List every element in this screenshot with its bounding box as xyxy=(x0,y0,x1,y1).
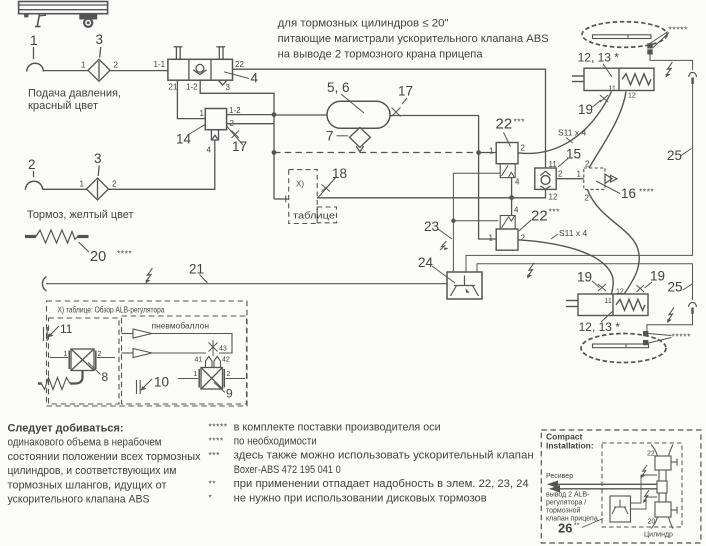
svg-text:*: * xyxy=(209,493,213,503)
tyre upper xyxy=(582,22,667,48)
lightning on 23 xyxy=(440,241,446,250)
drain valve 7 xyxy=(349,127,370,152)
svg-text:20: 20 xyxy=(90,249,106,265)
svg-text:11: 11 xyxy=(605,298,612,305)
hose S11x4 lower xyxy=(518,240,613,294)
svg-text:в комплекте поставки производи: в комплекте поставки производителя оси xyxy=(234,421,441,433)
svg-text:22: 22 xyxy=(235,60,244,69)
sensor connector lower xyxy=(643,331,648,336)
wires 26 to stack xyxy=(631,475,658,509)
svg-text:Ресивер: Ресивер xyxy=(546,473,573,480)
svg-text:12, 13 *: 12, 13 * xyxy=(578,51,620,65)
Compact Installation box xyxy=(541,430,701,543)
test point 19 lower-left xyxy=(592,281,606,291)
svg-text:19: 19 xyxy=(650,269,665,284)
svg-text:2: 2 xyxy=(521,234,526,243)
svg-text:не нужно при использовании дис: не нужно при использовании дисковых торм… xyxy=(234,492,487,504)
svg-text:2: 2 xyxy=(114,61,119,70)
svg-text:12: 12 xyxy=(616,289,624,296)
svg-text:3: 3 xyxy=(94,151,102,166)
label 4 pointer xyxy=(224,72,249,79)
svg-text:тормозной: тормозной xyxy=(546,507,581,515)
node dot xyxy=(509,195,514,200)
wire node down to table line xyxy=(274,198,289,200)
svg-text:*****: ***** xyxy=(672,332,692,342)
label 25 lower pointer xyxy=(683,284,692,290)
svg-text:2: 2 xyxy=(558,170,563,179)
svg-text:питающие магистрали ускоритель: питающие магистрали ускорительного клапа… xyxy=(278,33,549,45)
spring & pipe of 8 xyxy=(38,371,83,390)
ALB regulator 9 xyxy=(178,368,245,390)
svg-text:**: ** xyxy=(209,478,217,488)
svg-text:22: 22 xyxy=(496,116,513,133)
svg-text:ускорительного клапана ABS: ускорительного клапана ABS xyxy=(8,494,150,506)
svg-text:9: 9 xyxy=(226,387,233,401)
control line 21 xyxy=(42,277,46,292)
svg-text:21: 21 xyxy=(169,83,178,92)
svg-text:здесь также можно использовать: здесь также можно использовать ускорител… xyxy=(234,450,534,462)
svg-text:2: 2 xyxy=(227,371,231,378)
svg-text:1: 1 xyxy=(64,351,68,358)
svg-text:Installation:: Installation: xyxy=(546,441,594,451)
coupling 1 (supply) xyxy=(27,47,44,72)
inner dashed box xyxy=(602,443,682,527)
lightning bolts in compact box xyxy=(642,465,647,476)
wire 14 port2 down xyxy=(227,123,274,125)
svg-text:таблице: таблице xyxy=(293,211,335,221)
sensor cable lower xyxy=(477,264,696,331)
label 12,13 * pointer xyxy=(603,64,612,77)
svg-text:3: 3 xyxy=(226,83,231,92)
check symbol in middle section xyxy=(196,64,204,72)
svg-text:11: 11 xyxy=(60,322,73,336)
svg-text:17: 17 xyxy=(232,139,247,154)
brake cylinder 12,13 lower xyxy=(566,294,648,316)
dashed wire node to upper valve22 port1 xyxy=(274,152,479,154)
svg-text:8: 8 xyxy=(102,370,109,384)
svg-text:1: 1 xyxy=(80,180,85,189)
test point 19 lower-right xyxy=(637,282,653,292)
wire 15 port2 to valve16 xyxy=(556,178,584,180)
svg-text:1: 1 xyxy=(200,109,205,118)
svg-text:10: 10 xyxy=(154,375,169,390)
svg-text:12, 13 *: 12, 13 * xyxy=(579,320,621,334)
svg-text:S11 x 4: S11 x 4 xyxy=(558,128,586,138)
svg-text:1-2: 1-2 xyxy=(186,83,198,92)
svg-text:41: 41 xyxy=(195,357,203,364)
label 12,13 * lower pointer xyxy=(601,311,613,322)
wire coupling1 to filter3 xyxy=(43,70,88,72)
svg-text:42: 42 xyxy=(222,357,230,364)
svg-text:состоянии положении всех тормо: состоянии положении всех тормозных xyxy=(8,451,202,463)
label 22 *** xyxy=(504,133,511,147)
svg-text:пневмобаллон: пневмобаллон xyxy=(152,321,210,331)
lightning upper right xyxy=(667,62,673,75)
svg-text:25: 25 xyxy=(668,280,683,295)
wire valve4 port22 to shuttle 15 xyxy=(233,69,546,168)
svg-text:2: 2 xyxy=(112,180,117,189)
label 16 pointer xyxy=(596,181,620,194)
svg-text:тормозных шлангов, идущих от: тормозных шлангов, идущих от xyxy=(8,479,167,491)
test point 17 at valve 14 xyxy=(227,127,243,146)
wire reservoir right to lower valve22 port1 xyxy=(390,116,496,240)
svg-text:***: *** xyxy=(514,117,526,127)
brake cylinder 12,13 upper xyxy=(572,68,654,90)
svg-text:****: **** xyxy=(639,187,654,197)
wire 14 port 1-2 to node xyxy=(227,114,274,116)
svg-text:1: 1 xyxy=(489,147,494,156)
svg-text:4: 4 xyxy=(251,71,259,86)
svg-text:24: 24 xyxy=(418,255,434,270)
relay unit 26 xyxy=(610,496,631,522)
tyre lower xyxy=(581,334,666,363)
ABS solenoid valve 22 upper xyxy=(496,143,518,178)
svg-text:регулятора /: регулятора / xyxy=(546,500,586,507)
svg-text:7: 7 xyxy=(326,129,334,144)
shuttle valve 15 xyxy=(535,168,556,189)
svg-text:X) таблице: Обзор ALB-регулято: X) таблице: Обзор ALB-регулятора xyxy=(58,306,165,315)
throttle 18 xyxy=(317,177,336,199)
quick release valve 16 (dashed, optional) xyxy=(584,168,617,189)
test connection 11 xyxy=(44,326,60,341)
label 25 pointer xyxy=(681,149,692,156)
svg-text:****: **** xyxy=(209,436,224,446)
axle bar lower xyxy=(593,344,649,348)
svg-text:1: 1 xyxy=(577,170,582,179)
label 14 pointer xyxy=(189,125,206,135)
svg-text:11: 11 xyxy=(609,86,616,93)
svg-text:14: 14 xyxy=(176,132,192,147)
lightning on line 21 xyxy=(147,268,153,281)
hose S11x4 upper xyxy=(518,92,612,154)
trailer control valve 4 xyxy=(168,47,233,85)
svg-text:15: 15 xyxy=(566,147,581,162)
hose symbol 20 xyxy=(25,230,89,243)
svg-text:****: **** xyxy=(117,249,132,259)
label 5,6 pointer xyxy=(341,94,364,113)
svg-text:12: 12 xyxy=(628,93,636,100)
label 23 pointer xyxy=(438,229,452,239)
bellows input arrows xyxy=(122,329,233,358)
ports 41 42 of 9 xyxy=(206,357,221,368)
wire filter to valve14 port4 xyxy=(109,140,215,189)
wire table to shuttle15 port12 xyxy=(317,189,545,197)
svg-text:23: 23 xyxy=(424,219,439,234)
svg-text:4: 4 xyxy=(514,206,519,215)
svg-text:2: 2 xyxy=(521,144,526,153)
wire port4 down xyxy=(511,178,513,216)
test connection 10 xyxy=(137,379,153,394)
svg-text:по необходимости: по необходимости xyxy=(234,436,317,448)
svg-text:19: 19 xyxy=(578,102,593,117)
wire node vertical xyxy=(273,115,275,199)
svg-text:Цилиндр: Цилиндр xyxy=(644,532,673,539)
label 9 pointer xyxy=(214,383,225,393)
svg-text:26: 26 xyxy=(558,521,572,536)
svg-text:11: 11 xyxy=(549,160,558,169)
coupling 2 (brake) xyxy=(25,171,42,190)
wire node to reservoir xyxy=(274,114,327,116)
svg-text:1: 1 xyxy=(194,371,198,378)
ALB regulator 8 xyxy=(50,349,115,371)
svg-text:16: 16 xyxy=(621,186,636,201)
filter 3 (brake line) xyxy=(87,166,109,201)
svg-text:12: 12 xyxy=(549,193,558,202)
wire coupling2 to filter3 xyxy=(43,188,87,190)
bellows lines xyxy=(152,334,232,354)
svg-text:для тормозных цилиндров ≤ 20": для тормозных цилиндров ≤ 20" xyxy=(278,18,449,30)
svg-text:на выводе 2 тормозного крана п: на выводе 2 тормозного крана прицепа xyxy=(278,49,484,61)
svg-text:25: 25 xyxy=(667,148,682,163)
svg-text:1-2: 1-2 xyxy=(229,106,241,115)
svg-text:2: 2 xyxy=(98,351,102,358)
svg-text:одинакового объема в нерабочем: одинакового объема в нерабочем xyxy=(8,437,162,449)
label 24 pointer xyxy=(432,266,455,283)
label 8 pointer xyxy=(88,363,101,375)
svg-text:18: 18 xyxy=(332,166,347,181)
svg-text:Тормоз, желтый цвет: Тормоз, желтый цвет xyxy=(27,209,134,221)
filter 3 (supply line) xyxy=(88,47,110,81)
svg-text:5, 6: 5, 6 xyxy=(327,80,350,95)
svg-text:красный цвет: красный цвет xyxy=(28,100,98,112)
svg-text:20: 20 xyxy=(648,519,656,526)
svg-text:19: 19 xyxy=(577,270,592,285)
node dot xyxy=(272,112,277,117)
svg-text:43: 43 xyxy=(219,346,227,353)
svg-text:3: 3 xyxy=(96,32,104,47)
ABS solenoid valve 22 lower xyxy=(496,216,518,251)
hose 16 bottom to lower cylinder port 12 xyxy=(588,190,640,294)
ALB overview dashed box xyxy=(47,301,248,406)
reservoir 5,6 xyxy=(327,101,390,128)
svg-text:***: *** xyxy=(209,450,221,460)
X-table reference box xyxy=(289,170,337,224)
svg-text:X): X) xyxy=(296,180,304,189)
test point 19 upper xyxy=(593,95,609,107)
svg-text:S11 x 4: S11 x 4 xyxy=(559,228,587,238)
stems xyxy=(174,46,183,48)
svg-text:17: 17 xyxy=(398,84,413,99)
svg-text:Подача давления,: Подача давления, xyxy=(28,88,121,100)
sensor connector xyxy=(647,43,652,48)
svg-text:*****: ***** xyxy=(209,422,228,432)
compact valve stack xyxy=(651,445,677,529)
label 22 *** lower xyxy=(519,220,531,231)
wire valve4 port21 to valve14 xyxy=(177,80,205,118)
svg-text:1-1: 1-1 xyxy=(154,60,166,69)
lightning mid xyxy=(528,263,534,276)
receiver arrow lines xyxy=(547,481,657,493)
svg-text:2: 2 xyxy=(585,194,590,203)
svg-text:вывод 2 ALB-: вывод 2 ALB- xyxy=(546,492,590,499)
svg-text:21: 21 xyxy=(189,262,204,277)
node dot dashed junction xyxy=(476,150,481,155)
sensor cable upper xyxy=(466,55,697,273)
node dot xyxy=(272,150,277,155)
svg-text:1: 1 xyxy=(30,33,38,48)
svg-text:4: 4 xyxy=(207,146,212,155)
svg-text:**: ** xyxy=(574,523,580,530)
label 15 pointer xyxy=(558,159,568,168)
release valve 14 xyxy=(205,109,226,141)
vent 3 xyxy=(219,81,227,86)
svg-text:Boxer-ABS 472 195 041 0: Boxer-ABS 472 195 041 0 xyxy=(234,464,341,476)
test point 17 at reservoir xyxy=(392,98,408,117)
wire valve4 port 1-2 down to node xyxy=(200,80,274,114)
hose 16 top to upper cylinder port 12 xyxy=(589,92,626,169)
lightning lower right xyxy=(668,308,674,321)
throttle 43 xyxy=(209,340,218,356)
svg-text:*****: ***** xyxy=(669,25,689,35)
svg-text:1: 1 xyxy=(489,234,494,243)
axle bar xyxy=(593,35,652,39)
svg-text:1: 1 xyxy=(81,61,86,70)
svg-text:при применении отпадает надобн: при применении отпадает надобность в эле… xyxy=(234,478,529,490)
ECU 24 xyxy=(447,272,482,299)
wire filter3 to valve4 port 1-1 xyxy=(110,70,168,72)
svg-text:22: 22 xyxy=(531,207,548,224)
svg-text:Следует добиваться:: Следует добиваться: xyxy=(8,423,124,435)
svg-text:22: 22 xyxy=(647,451,655,458)
trailer icon xyxy=(19,2,108,28)
svg-text:***: *** xyxy=(549,207,561,217)
electrical line 23 xyxy=(453,173,500,272)
svg-text:4: 4 xyxy=(515,177,520,186)
label 21 pointer xyxy=(200,275,208,284)
svg-text:2: 2 xyxy=(28,157,36,172)
svg-text:цилиндров, и соответствующих и: цилиндров, и соответствующих им xyxy=(8,465,177,477)
